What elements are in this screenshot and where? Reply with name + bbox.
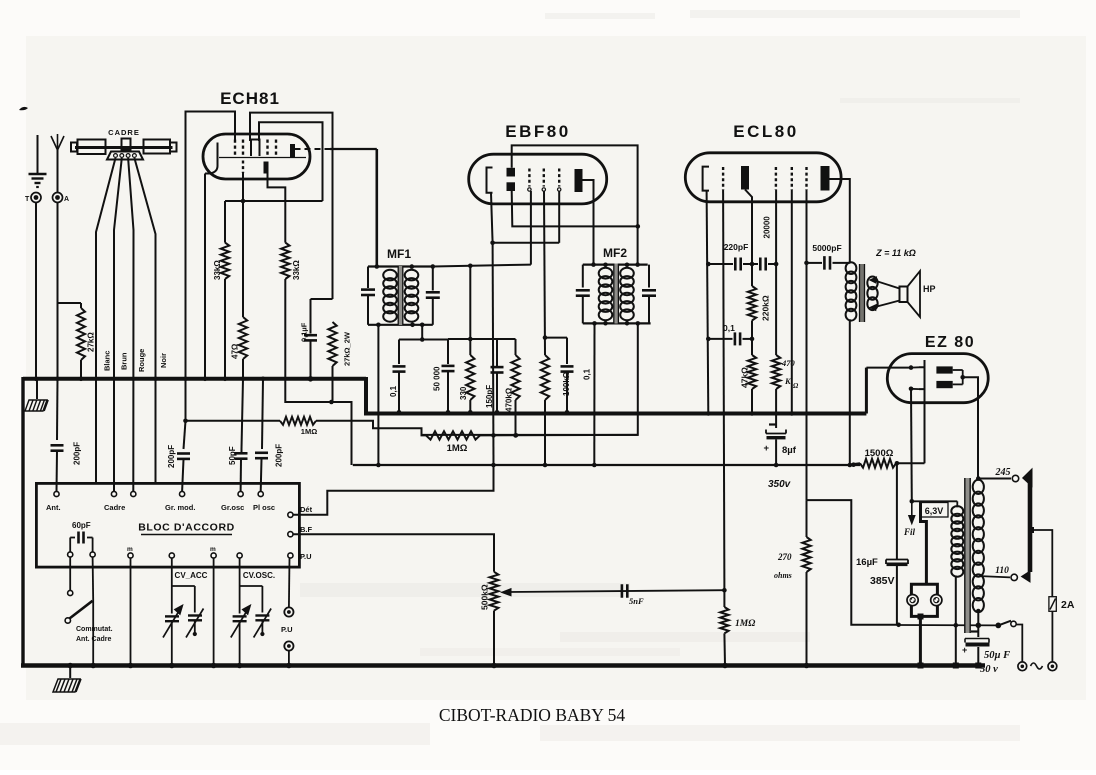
svg-text:0,1: 0,1 <box>583 368 592 380</box>
svg-text:0,1µF: 0,1µF <box>300 322 309 342</box>
wire A down <box>57 203 59 379</box>
capacitor 200pF Gr.mod <box>184 421 186 449</box>
svg-text:50µ F: 50µ F <box>984 650 1010 661</box>
terminal m2 <box>211 553 216 558</box>
capacitor 0,1 (IF) <box>398 340 400 365</box>
EBF80 grid 2 (dashed) <box>543 169 545 187</box>
svg-text:Blanc: Blanc <box>103 351 112 371</box>
svg-text:1MΩ: 1MΩ <box>735 619 755 629</box>
resistor 33kΩ left <box>224 201 226 243</box>
svg-text:470: 470 <box>781 358 796 368</box>
svg-text:m: m <box>210 546 216 553</box>
ECL80 pentode grid2 (dashed) <box>791 167 793 190</box>
MF2 secondary coil <box>620 268 634 279</box>
svg-text:Z = 11 kΩ: Z = 11 kΩ <box>875 248 916 258</box>
wire secondary to speaker <box>873 280 900 289</box>
wire ECL80 plate to output transformer <box>830 179 850 264</box>
wire cadre Blanc <box>96 158 116 483</box>
EZ80 cathode bracket <box>919 360 925 389</box>
resistor 27kΩ 2W <box>328 322 336 366</box>
wire ECH81 plate to MF1 <box>295 148 331 150</box>
wire filament return path <box>807 500 899 625</box>
output transformer core <box>860 264 865 322</box>
wire triode grid drop <box>242 173 244 317</box>
terminal 110 <box>1011 574 1017 580</box>
speaker HP <box>900 287 908 303</box>
ECH81 triode grid (dashed) <box>242 161 244 174</box>
MF2 core <box>614 264 619 324</box>
svg-text:200pF: 200pF <box>275 444 284 467</box>
ground bus left (heavy) <box>23 377 366 381</box>
bus step down <box>364 377 368 414</box>
capacitor 16µF <box>896 463 898 559</box>
terminal Pl.osc <box>258 491 263 496</box>
tube ECL80 envelope <box>685 153 841 202</box>
svg-text:330: 330 <box>459 386 468 400</box>
fuse 2A <box>1049 597 1056 612</box>
svg-text:0,1: 0,1 <box>389 385 398 397</box>
svg-text:50 000: 50 000 <box>433 366 442 391</box>
EBF80 plate <box>575 169 583 192</box>
ECH81 grid 2 (dashed) <box>242 140 244 157</box>
capacitor 50 000 <box>447 339 449 364</box>
terminal 60pF left <box>68 552 73 557</box>
resistor 470kΩ (IF) <box>515 339 517 355</box>
MF1 secondary tuning capacitor <box>432 267 434 291</box>
svg-text:47kΩ: 47kΩ <box>740 367 750 388</box>
svg-text:200pF: 200pF <box>167 445 176 468</box>
wire ECL80 cathode down <box>707 191 709 414</box>
svg-text:Brun: Brun <box>120 352 129 370</box>
svg-text:1MΩ: 1MΩ <box>447 443 468 454</box>
node 5nF to grid <box>722 588 727 593</box>
ECH81 hexode plate <box>290 144 295 158</box>
ECH81 cathode <box>205 143 218 174</box>
wire B.F to volume pot <box>293 534 494 572</box>
svg-text:60pF: 60pF <box>72 521 91 530</box>
svg-text:27kΩ_2W: 27kΩ_2W <box>343 331 352 366</box>
wire MF2 primary bottom to 1M line <box>422 323 638 435</box>
left frame wire (heavy) <box>21 377 24 666</box>
wire heavy 6.3V drop to lamps <box>921 501 927 584</box>
wire riser 33k to rail <box>285 279 351 465</box>
wire 350v rail <box>353 464 860 466</box>
resistor 1MΩ upper <box>186 420 281 422</box>
svg-text:33kΩ: 33kΩ <box>292 260 301 280</box>
ECL80 pentode plate <box>821 166 830 191</box>
capacitor 50µF <box>977 625 979 637</box>
wire EZ80 plate to transformer 245 <box>963 377 978 478</box>
terminal CV ACC <box>169 553 174 558</box>
svg-text:MF2: MF2 <box>603 246 627 260</box>
svg-text:Pl osc: Pl osc <box>253 503 275 512</box>
ECH81 grid 1 (dashed) <box>234 140 236 157</box>
terminal Cadre 1 <box>111 491 116 496</box>
svg-text:CIBOT-RADIO BABY 54: CIBOT-RADIO BABY 54 <box>439 705 626 725</box>
EBF80 grid 3 (dashed) <box>558 169 560 187</box>
ECL80 triode grid (dashed) <box>722 167 724 190</box>
switch Commutat Ant/Cadre <box>69 557 71 590</box>
EBF80 diode anode upper <box>507 168 516 177</box>
resistor 470kΩ (handwritten) <box>775 190 777 355</box>
wire cadre Brun <box>114 158 122 491</box>
mains switch <box>995 623 1001 629</box>
svg-text:+: + <box>764 443 770 454</box>
svg-text:16µF: 16µF <box>856 557 878 568</box>
terminal Gr.mod <box>180 491 185 496</box>
svg-text:33kΩ: 33kΩ <box>213 260 222 280</box>
svg-text:CADRE: CADRE <box>108 128 140 137</box>
node junction <box>329 400 334 405</box>
wire cadre Noir <box>134 158 155 483</box>
svg-text:245: 245 <box>995 467 1011 478</box>
capacitor 200pF Pl.osc <box>262 379 263 449</box>
MF2 primary coil <box>599 268 613 279</box>
terminal CV OSC <box>237 553 242 558</box>
wire pot wiper with arrow <box>507 590 724 592</box>
svg-text:20000: 20000 <box>763 216 772 239</box>
wire ECL80 triode plate down <box>745 190 752 265</box>
pilot lamp right <box>931 595 942 606</box>
resistor 100kΩ <box>544 191 545 355</box>
pilot lamp box <box>911 584 937 616</box>
jack P.U upper <box>284 607 293 616</box>
capacitor 220pF <box>708 263 733 265</box>
EBF80 diode anode lower <box>507 182 516 191</box>
capacitor 20000 <box>752 263 758 265</box>
transformer primary winding <box>973 480 984 494</box>
bus right riser to EZ80 cathode <box>865 368 868 414</box>
wire MF1 tap down <box>421 325 423 340</box>
svg-text:220kΩ: 220kΩ <box>761 295 771 321</box>
terminal T <box>31 193 41 203</box>
resistor 330 <box>469 266 471 355</box>
EBF80 cathode <box>487 168 493 193</box>
svg-text:Ant.: Ant. <box>46 503 61 512</box>
wire primary bottom <box>977 611 979 625</box>
MF2 primary tuning capacitor <box>582 265 584 288</box>
wire EBF80 lower diode <box>512 191 638 226</box>
resistor 1MΩ lower <box>426 431 480 439</box>
ECH81 grid 4 (dashed) <box>266 140 268 157</box>
tuner block BLOC D'ACCORD <box>36 483 299 567</box>
svg-text:Noir: Noir <box>159 353 168 368</box>
mains plug left <box>1018 662 1027 671</box>
wire EBF80 top loop <box>512 145 638 264</box>
resistor 27kΩ <box>80 303 82 308</box>
wire EBF80 grid3 link <box>558 191 560 243</box>
terminal B.F <box>288 532 293 537</box>
terminal Cadre 2 <box>131 491 136 496</box>
terminal m1 <box>128 553 133 558</box>
cadre terminal plate <box>107 152 143 160</box>
ECH81 triode plate <box>264 162 269 174</box>
wire lamp box to ground bus <box>919 616 922 665</box>
svg-text:Cadre: Cadre <box>104 503 125 512</box>
MF2 secondary tuning capacitor <box>648 265 650 288</box>
svg-text:47Ω: 47Ω <box>231 343 240 359</box>
svg-text:T: T <box>25 196 30 203</box>
svg-text:8µf: 8µf <box>782 445 797 456</box>
wire EBF80 cathode down <box>491 193 493 243</box>
pilot lamp left <box>907 595 918 606</box>
terminal Gr.osc <box>238 491 243 496</box>
transformer 6.3V winding <box>956 501 958 507</box>
MF1 core <box>398 266 403 325</box>
svg-text:+: + <box>962 645 967 655</box>
wire P.U jacks <box>288 558 291 608</box>
wire detector branch to Dét <box>293 465 493 515</box>
resistor 1MΩ grid leak <box>723 590 725 607</box>
terminal 60pF right <box>90 552 95 557</box>
label 6,3V <box>921 503 949 518</box>
wire ECL80 screen down <box>791 190 793 414</box>
transformer MF1 can <box>368 265 413 267</box>
wire A to 27k <box>58 302 82 304</box>
terminal Ant. <box>54 491 59 496</box>
svg-text:HP: HP <box>923 284 936 294</box>
EZ80 anode upper <box>936 366 952 373</box>
svg-text:CV_ACC: CV_ACC <box>175 571 208 580</box>
antenna symbol <box>57 150 59 193</box>
output transformer secondary coil <box>867 277 877 290</box>
svg-text:Ant. Cadre: Ant. Cadre <box>76 636 112 643</box>
svg-text:B.F: B.F <box>300 525 313 534</box>
wire T to bus <box>35 203 37 379</box>
wire bank rail <box>399 339 448 341</box>
capacitor 50pF <box>241 449 243 453</box>
ECL80 pentode grid1 (dashed) <box>775 167 777 190</box>
bottom ground bus (heavy) <box>21 663 985 668</box>
svg-text:385V: 385V <box>870 575 895 587</box>
svg-text:A: A <box>64 196 69 203</box>
MF1 primary tuning capacitor <box>367 267 369 289</box>
ECH81 grid 3 bracket <box>251 140 260 157</box>
terminal A <box>53 193 63 203</box>
cadre ferrite rod <box>75 146 173 149</box>
terminal 245 <box>1012 475 1018 481</box>
svg-text:27kΩ: 27kΩ <box>87 332 96 352</box>
wire EBF80 grid1 to MF1 <box>530 191 532 265</box>
wire Gr.mod feed <box>185 379 187 421</box>
svg-text:6,3V: 6,3V <box>925 506 944 516</box>
svg-text:Gr. mod.: Gr. mod. <box>165 503 195 512</box>
tube ECH81 envelope <box>203 134 310 179</box>
MF1 secondary coil <box>405 270 419 281</box>
svg-text:P.U: P.U <box>300 552 312 561</box>
svg-text:ECL80: ECL80 <box>733 122 798 141</box>
svg-text:50pF: 50pF <box>228 446 237 465</box>
EZ80 anode lower <box>936 381 952 388</box>
wire 47ohm to Gr.osc <box>242 379 244 449</box>
svg-text:Rouge: Rouge <box>137 349 146 372</box>
resistor 1500Ω <box>850 463 860 464</box>
wire 110 tap <box>981 576 1010 577</box>
capacitor 8µF <box>775 414 777 429</box>
wire MF1 bottom to rail <box>377 325 379 465</box>
transformer MF2 can <box>583 264 648 266</box>
capacitor 5nF <box>621 584 624 598</box>
resistor 47kΩ <box>751 339 753 355</box>
ECH81 grid 5 (dashed) <box>275 140 277 157</box>
mains AC symbol <box>1031 663 1043 669</box>
wire ECH81 left loop <box>186 112 236 379</box>
svg-text:270: 270 <box>777 552 792 562</box>
svg-text:5000pF: 5000pF <box>812 243 841 253</box>
svg-text:110: 110 <box>995 566 1009 576</box>
wire ECH81 inner grid loop <box>259 122 323 201</box>
terminal P.U <box>288 553 293 558</box>
svg-text:ohms: ohms <box>774 571 792 580</box>
svg-text:220pF: 220pF <box>724 242 749 252</box>
ECL80 triode plate <box>741 166 749 190</box>
MF1 primary coil <box>383 270 397 281</box>
wire ECL80 triode grid down <box>723 190 724 590</box>
ECL80 pentode grid3 (dashed) <box>805 167 807 190</box>
svg-text:P.U: P.U <box>281 625 293 634</box>
terminal Dét <box>288 512 293 517</box>
potentiometer 500kΩ <box>490 572 499 611</box>
wire ECL80 g3 down to filament rail <box>806 190 808 500</box>
wire 6.3V rail <box>912 500 958 502</box>
wire grid return <box>225 200 323 202</box>
ECL80 cathode <box>703 167 709 191</box>
EZ80 anode junction <box>953 369 963 371</box>
svg-text:EBF80: EBF80 <box>505 122 570 141</box>
svg-text:5nF: 5nF <box>629 596 644 606</box>
mains plug right <box>1048 662 1057 671</box>
wire m1 to ground <box>130 558 132 666</box>
capacitor 0,1µF <box>310 299 312 334</box>
tube EBF80 envelope <box>469 154 607 204</box>
wire cathode drop <box>204 174 206 379</box>
svg-text:1500Ω: 1500Ω <box>865 448 894 459</box>
wire EBF80 plate to MF2 <box>583 180 594 265</box>
wire selector to fuse <box>1028 527 1034 533</box>
svg-text:Ω: Ω <box>793 382 799 390</box>
svg-text:BLOC D'ACCORD: BLOC D'ACCORD <box>138 522 235 534</box>
B+ bus middle (heavy) <box>364 412 866 416</box>
resistor 33kΩ right <box>268 174 286 243</box>
chassis ground bottom <box>69 666 71 679</box>
svg-text:2A: 2A <box>1061 599 1075 611</box>
resistor 47Ω <box>239 317 247 359</box>
svg-text:EZ 80: EZ 80 <box>925 334 975 351</box>
output transformer primary coil <box>846 262 857 274</box>
svg-text:Dét: Dét <box>300 505 313 514</box>
svg-text:50 v: 50 v <box>980 664 998 675</box>
resistor 270 ohms <box>806 500 808 537</box>
scan mark <box>19 107 28 110</box>
EBF80 grid 1 (dashed) <box>528 169 530 187</box>
earth electrode symbol <box>37 135 39 173</box>
resistor 220kΩ <box>751 264 753 286</box>
capacitor 200pF antenna <box>56 379 59 440</box>
svg-text:350v: 350v <box>768 479 792 490</box>
tube EZ80 envelope <box>887 354 988 403</box>
wire EZ80 heater to Fil rail <box>910 389 913 502</box>
voltage selector bar <box>1023 469 1032 487</box>
arrow Fil <box>911 503 913 518</box>
capacitor 0,1 (right) <box>545 337 567 339</box>
svg-text:470kΩ: 470kΩ <box>505 387 514 412</box>
ECH81 internal baffle <box>219 157 306 159</box>
svg-text:Commutat.: Commutat. <box>76 626 113 633</box>
capacitor 150pF <box>496 339 498 366</box>
wire m2 to ground <box>213 558 215 666</box>
capacitor 0,1 (ECL80) <box>708 338 732 340</box>
wire 245 tap <box>978 478 1011 480</box>
svg-text:Fil: Fil <box>903 527 916 537</box>
svg-text:ECH81: ECH81 <box>220 89 280 108</box>
wire MF1 secondary to EBF80 grid <box>433 265 531 267</box>
svg-text:m: m <box>127 546 133 553</box>
chassis ground below bus <box>36 379 38 399</box>
svg-text:500kΩ: 500kΩ <box>480 584 490 610</box>
transformer core <box>965 478 970 633</box>
EZ80 cathode pins <box>911 366 919 368</box>
svg-text:MF1: MF1 <box>387 247 411 261</box>
wire MF2 secondary bottom to rail <box>593 323 595 465</box>
jack P.U lower <box>284 641 293 650</box>
wire cadre Rouge <box>128 158 133 491</box>
svg-text:Gr.osc: Gr.osc <box>221 503 244 512</box>
svg-text:200pF: 200pF <box>73 442 82 465</box>
wire ECH81 outer grid loop <box>250 113 333 299</box>
wire heater bus <box>899 624 999 626</box>
svg-text:0,1: 0,1 <box>723 323 735 333</box>
svg-text:1MΩ: 1MΩ <box>301 427 317 436</box>
wire transformer primary bottom <box>849 319 851 465</box>
capacitor 5000pF <box>807 262 823 264</box>
wire EZ80 cathode stem to 1500 ohm line <box>924 389 926 463</box>
wire 6.3V winding bottom <box>955 576 957 666</box>
svg-text:CV.OSC.: CV.OSC. <box>243 571 275 580</box>
